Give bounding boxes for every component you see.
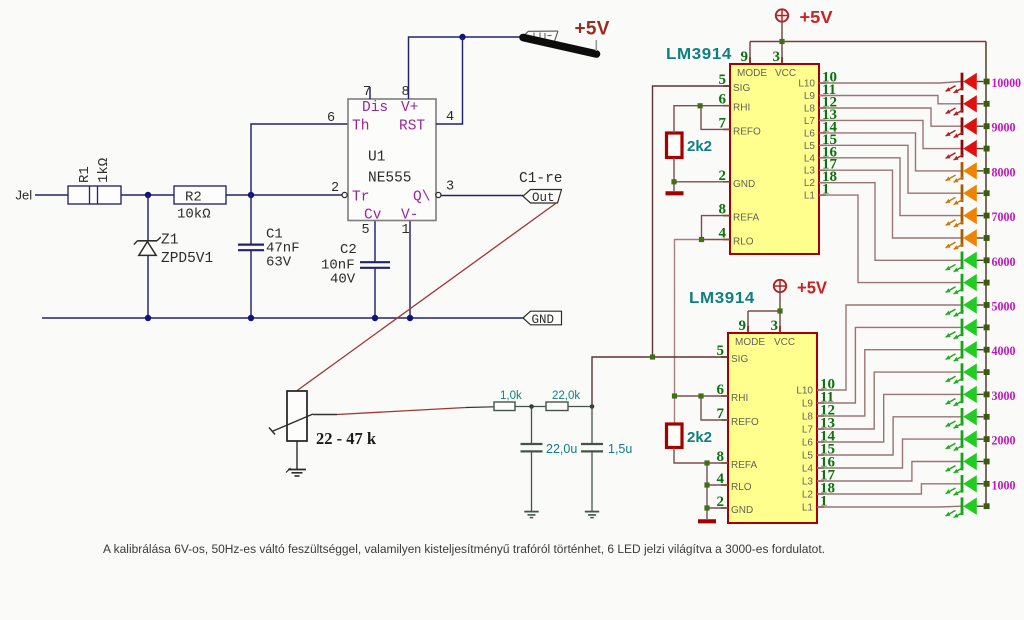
svg-text:REFO: REFO <box>733 126 761 137</box>
label 1000 rpm <box>992 477 1016 492</box>
svg-text:A kalibrálása 6V-os, 50Hz-es v: A kalibrálása 6V-os, 50Hz-es váltó feszü… <box>103 542 825 556</box>
svg-text:3: 3 <box>771 318 779 334</box>
net tag GND <box>523 311 562 327</box>
svg-text:L3: L3 <box>804 166 816 177</box>
junction square U3 GND <box>704 505 709 510</box>
junction square U3 REFA <box>704 460 709 465</box>
svg-text:1,0k: 1,0k <box>500 390 522 402</box>
LED D10 <box>819 195 990 294</box>
wire +5V to U3 VCC/MODE <box>748 292 780 333</box>
svg-text:MODE: MODE <box>735 337 765 348</box>
svg-text:L8: L8 <box>804 104 816 115</box>
svg-text:L1: L1 <box>804 191 816 202</box>
capacitor C2 10nF 40V <box>321 220 390 318</box>
svg-text:6: 6 <box>327 111 335 126</box>
junction node filter out <box>590 404 595 409</box>
svg-text:4: 4 <box>446 110 454 125</box>
LED D12 <box>817 319 990 403</box>
capacitor 1,5u <box>581 407 632 512</box>
junction node rail/C2 <box>372 315 378 321</box>
svg-text:LM3914: LM3914 <box>666 46 732 63</box>
wire pot wiper to filter (red annotation) <box>313 407 494 415</box>
junction square U3 RHI left <box>672 393 677 398</box>
ground bar U3 <box>698 519 716 523</box>
LED D1 (10000 rpm) <box>819 73 990 93</box>
wire U2 REFA/RLO to U3 RHI <box>675 216 731 424</box>
resistor 1,0k <box>494 390 522 411</box>
ground under 1,5u <box>585 512 599 518</box>
label 7000 rpm <box>992 209 1016 224</box>
LED D7 (7000 rpm) <box>819 158 990 227</box>
svg-text:Dis: Dis <box>362 100 388 116</box>
LED D15 (3000 rpm) <box>817 386 990 442</box>
junction square U2 GND <box>671 179 676 184</box>
svg-text:22,0u: 22,0u <box>546 442 577 456</box>
ground rail wire <box>42 317 523 319</box>
svg-text:7000: 7000 <box>992 209 1016 224</box>
svg-text:6000: 6000 <box>992 254 1016 269</box>
svg-text:3: 3 <box>446 180 454 195</box>
label 3000 rpm <box>992 388 1016 403</box>
svg-text:L5: L5 <box>802 451 814 462</box>
label 4000 rpm <box>992 343 1016 358</box>
LED D14 <box>817 363 990 429</box>
ground under 22,0u <box>524 512 538 518</box>
svg-text:SIG: SIG <box>733 83 750 94</box>
wire U1 V- to ground rail <box>409 220 411 318</box>
svg-text:22,0k: 22,0k <box>552 390 580 402</box>
LED D3 (9000 rpm) <box>819 108 990 138</box>
svg-text:Jel: Jel <box>16 188 33 203</box>
svg-text:L10: L10 <box>796 386 813 397</box>
annotation handwritten +5V <box>575 19 610 52</box>
svg-text:Z1: Z1 <box>161 233 178 249</box>
svg-text:VCC: VCC <box>774 337 795 348</box>
svg-text:ZPD5V1: ZPD5V1 <box>161 251 213 267</box>
capacitor 22,0u <box>521 407 578 512</box>
svg-text:RHI: RHI <box>731 393 748 404</box>
svg-text:L8: L8 <box>802 412 814 423</box>
LED D11 (5000 rpm) <box>817 296 990 390</box>
junction node rail/V- <box>407 315 413 321</box>
svg-text:7: 7 <box>363 85 371 100</box>
svg-text:NE555: NE555 <box>368 171 412 187</box>
junction square +5V/U2 <box>779 39 784 44</box>
svg-text:MODE: MODE <box>737 68 767 79</box>
power +5V symbol for U2 <box>776 7 833 27</box>
wire U1 Th to node <box>251 124 348 195</box>
svg-text:3: 3 <box>773 49 781 65</box>
svg-text:1: 1 <box>402 223 410 238</box>
svg-text:3000: 3000 <box>992 388 1016 403</box>
IC U2 LM3914 (upper) <box>719 49 838 254</box>
svg-text:R2: R2 <box>185 190 202 206</box>
svg-text:RHI: RHI <box>733 103 750 114</box>
wire U2 GND network <box>674 158 730 192</box>
net tag Out <box>523 190 562 205</box>
resistor R4 2k2 (U3 reference) <box>667 424 713 448</box>
svg-text:L7: L7 <box>804 116 816 127</box>
wire U2 RHI network <box>674 106 730 133</box>
svg-text:L4: L4 <box>804 153 816 164</box>
svg-text:GND: GND <box>532 313 555 327</box>
svg-text:L7: L7 <box>802 425 814 436</box>
resistor 22,0k <box>546 390 580 411</box>
svg-text:L9: L9 <box>804 91 816 102</box>
wire +5V to U2 VCC/MODE and LED rail <box>750 22 986 64</box>
svg-text:Tr: Tr <box>352 190 369 206</box>
svg-text:C1-re: C1-re <box>519 171 563 187</box>
svg-text:V+: V+ <box>401 100 418 116</box>
svg-text:R1: R1 <box>77 166 93 183</box>
svg-text:C2: C2 <box>340 242 357 258</box>
svg-text:9000: 9000 <box>992 120 1016 135</box>
svg-text:Q\: Q\ <box>413 190 430 206</box>
LED D9 (6000 rpm) <box>819 183 990 272</box>
net label C1-re <box>519 171 563 187</box>
wire U1 RST to +5V net <box>436 37 463 124</box>
svg-text:1,5u: 1,5u <box>608 442 632 456</box>
resistor R2 10kΩ <box>174 186 226 223</box>
LED D20 <box>817 497 990 517</box>
wire Jel to R1 <box>35 194 68 196</box>
annotation red wire Out tag to potentiometer <box>297 203 558 392</box>
wire U3 SIG from filter <box>592 357 728 407</box>
svg-text:+5V: +5V <box>575 19 610 40</box>
svg-text:GND: GND <box>733 179 755 190</box>
svg-text:REFA: REFA <box>731 460 757 471</box>
svg-text:L1: L1 <box>802 503 814 514</box>
caption text <box>103 542 825 556</box>
LED supply rail (+5V) <box>985 42 987 507</box>
svg-text:L4: L4 <box>802 464 814 475</box>
LED D18 <box>817 453 990 481</box>
wire U1 V+ to +5V net <box>409 37 523 99</box>
svg-text:L9: L9 <box>802 399 814 410</box>
wire R1 to R2 <box>121 194 174 196</box>
label 10000 rpm <box>992 75 1022 90</box>
svg-text:5: 5 <box>362 223 370 238</box>
svg-text:Th: Th <box>352 119 369 135</box>
wire 22,0k to output node <box>568 406 592 408</box>
LED D17 (2000 rpm) <box>817 430 990 468</box>
wire R2 to U1 Tr <box>226 194 342 196</box>
svg-text:8000: 8000 <box>992 164 1016 179</box>
svg-text:Cv: Cv <box>364 208 382 224</box>
svg-text:2: 2 <box>331 181 339 196</box>
junction node R1/Z1 <box>145 192 151 198</box>
svg-text:REFO: REFO <box>731 417 759 428</box>
svg-text:10kΩ: 10kΩ <box>177 207 211 223</box>
junction square U2 RHI/REFO <box>698 103 703 108</box>
annotation black marker stroke <box>523 38 597 55</box>
junction square U3 RLO <box>704 482 709 487</box>
svg-text:40V: 40V <box>330 272 356 288</box>
svg-text:REFA: REFA <box>733 213 759 224</box>
svg-text:VCC: VCC <box>775 68 796 79</box>
svg-text:4000: 4000 <box>992 343 1016 358</box>
svg-text:GND: GND <box>731 505 753 516</box>
LED D2 <box>819 95 990 115</box>
svg-text:Out: Out <box>532 191 555 205</box>
label 6000 rpm <box>992 254 1016 269</box>
svg-text:L5: L5 <box>804 141 816 152</box>
svg-text:5000: 5000 <box>992 299 1016 314</box>
LED D5 (8000 rpm) <box>819 133 990 182</box>
capacitor C1 47nF 63V <box>238 195 300 318</box>
junction node rail/C1 <box>248 315 254 321</box>
svg-text:+5V: +5V <box>800 7 833 27</box>
svg-text:9: 9 <box>739 318 747 334</box>
svg-text:RLO: RLO <box>733 237 754 248</box>
svg-text:L3: L3 <box>802 477 814 488</box>
svg-text:+5V: +5V <box>797 278 827 298</box>
label 8000 rpm <box>992 164 1016 179</box>
LED D4 <box>819 120 990 160</box>
wire 1,0k to 22,0k <box>515 406 546 408</box>
svg-text:L2: L2 <box>802 490 814 501</box>
resistor R1 1kΩ <box>68 158 121 204</box>
IC U3 LM3914 (lower) <box>717 318 836 523</box>
IC U1 NE555 <box>327 85 454 238</box>
svg-text:RLO: RLO <box>731 482 752 493</box>
svg-text:10000: 10000 <box>992 75 1022 90</box>
svg-text:L2: L2 <box>804 178 816 189</box>
net label Jel (input) <box>16 188 33 203</box>
svg-text:1kΩ: 1kΩ <box>96 158 112 183</box>
svg-text:U1: U1 <box>368 150 385 166</box>
junction square U3 RHI/REFO <box>698 393 703 398</box>
wire U3 REFA/RLO/GND network <box>674 448 728 520</box>
svg-text:V-: V- <box>401 208 418 224</box>
LED D16 <box>817 408 990 455</box>
svg-text:63V: 63V <box>266 255 292 271</box>
junction node filter mid <box>529 404 534 409</box>
LED D19 (1000 rpm) <box>817 475 990 495</box>
label 5000 rpm <box>992 299 1016 314</box>
power +5V symbol for U3 <box>774 278 828 298</box>
label LM3914 (U2) <box>666 46 732 63</box>
svg-text:LM3914: LM3914 <box>689 290 755 307</box>
potentiometer 22 - 47 k <box>269 391 377 448</box>
resistor R3 2k2 (U2 reference) <box>667 133 713 158</box>
junction node RST riser <box>459 34 465 40</box>
junction node C1/Th <box>248 192 254 198</box>
svg-text:2k2: 2k2 <box>687 429 712 446</box>
svg-text:9: 9 <box>741 49 749 65</box>
junction square +5V/U3 <box>777 308 782 313</box>
LED D13 (4000 rpm) <box>817 341 990 416</box>
svg-text:L6: L6 <box>802 438 814 449</box>
label LM3914 (U3) <box>689 290 755 307</box>
LED D8 <box>819 170 990 249</box>
wire U2 SIG down to U3 SIG net <box>653 86 731 357</box>
svg-text:SIG: SIG <box>731 354 748 365</box>
ground for potentiometer <box>286 441 306 476</box>
svg-text:22 - 47 k: 22 - 47 k <box>316 429 377 448</box>
ground bar U2 <box>666 191 684 195</box>
svg-text:2k2: 2k2 <box>687 138 712 155</box>
junction square U2 REFA/RLO <box>699 237 704 242</box>
label 2000 rpm <box>992 433 1016 448</box>
net tag (crossed out) on +5V wire <box>523 31 558 44</box>
svg-text:L6: L6 <box>804 128 816 139</box>
wire U3 RHI/REFO network <box>675 396 729 420</box>
label 9000 rpm <box>992 120 1016 135</box>
svg-text:1000: 1000 <box>992 477 1016 492</box>
junction node rail/Z1 <box>145 315 151 321</box>
zener diode Z1 ZPD5V1 <box>134 195 213 318</box>
wire U1 Q to Out tag <box>441 195 523 197</box>
svg-text:L10: L10 <box>798 79 815 90</box>
svg-text:2000: 2000 <box>992 433 1016 448</box>
LED D6 <box>819 145 990 204</box>
junction square U3 SIG <box>650 354 655 359</box>
svg-text:RST: RST <box>399 119 425 135</box>
